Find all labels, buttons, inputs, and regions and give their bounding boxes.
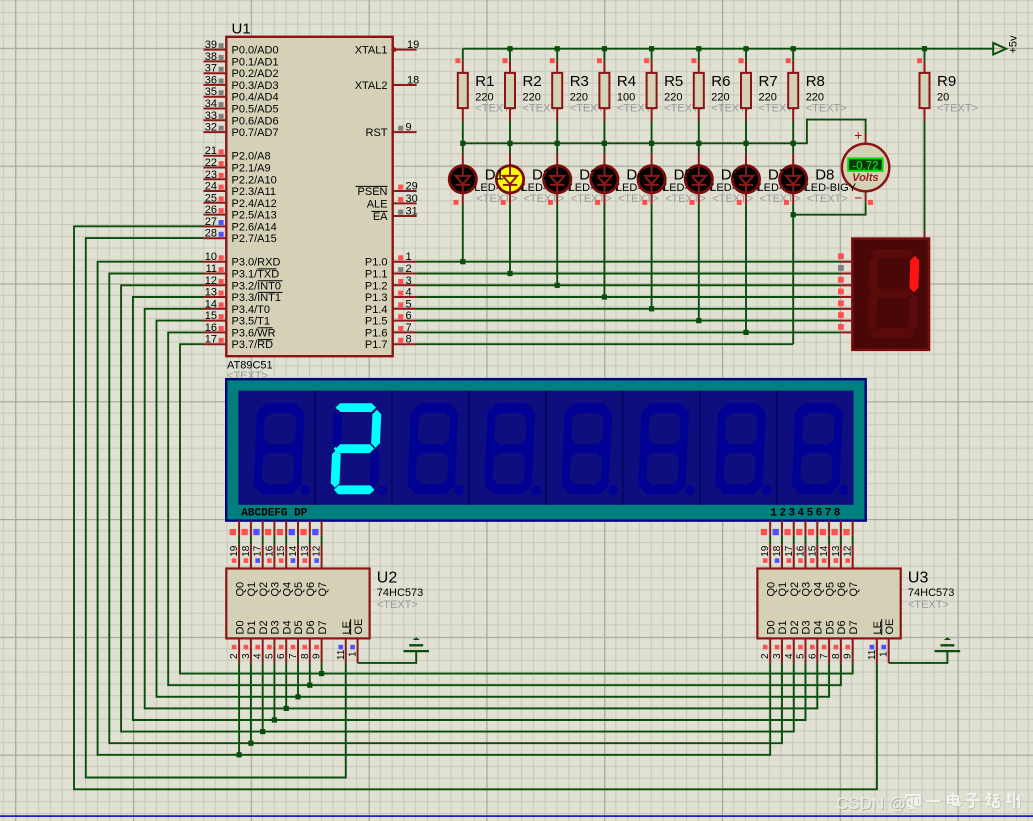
svg-text:2: 2 — [406, 263, 412, 275]
svg-text:24: 24 — [205, 181, 217, 193]
svg-text:8: 8 — [406, 334, 412, 346]
svg-text:P3.6/WR: P3.6/WR — [232, 327, 276, 339]
R1 reference label — [475, 73, 494, 90]
wire net R4/D4 column vertical segments — [603, 49, 605, 297]
U2 pin Q2 label — [258, 582, 270, 597]
resistor R4 100 — [597, 58, 658, 121]
svg-text:3: 3 — [241, 653, 252, 659]
svg-text:17: 17 — [253, 545, 264, 557]
display segment pin / latch Q0 link column x=239 — [229, 521, 240, 569]
U1 pin 27 P2.6 — [204, 216, 277, 234]
U1 pin 13 P3.3 — [204, 287, 283, 305]
8-digit blue 7-segment display module — [226, 379, 866, 520]
svg-text:<TEXT>: <TEXT> — [665, 193, 706, 205]
LED D7 name label — [768, 166, 787, 183]
svg-text:OE: OE — [884, 619, 896, 635]
display segment pin / latch Q4 link column x=286 — [276, 521, 287, 569]
svg-text:<TEXT>: <TEXT> — [476, 193, 517, 205]
svg-text:R5: R5 — [664, 73, 683, 90]
svg-text:ALE: ALE — [367, 198, 388, 210]
svg-text:Q6: Q6 — [305, 582, 317, 597]
svg-text:U3: U3 — [908, 569, 929, 586]
svg-text:9: 9 — [406, 122, 412, 134]
U3 pin Q0 label — [765, 582, 777, 597]
wire +5V rail from R1 top to power arrow — [463, 48, 993, 50]
svg-text:Q6: Q6 — [836, 582, 848, 597]
U2 pin Q7 label — [317, 582, 329, 597]
U1 pin 6 P1.5 — [365, 310, 417, 328]
svg-text:D5: D5 — [824, 620, 836, 634]
U1 pin 17 P3.7 — [204, 334, 274, 352]
svg-text:1: 1 — [406, 251, 412, 263]
svg-text:D0: D0 — [765, 620, 777, 634]
U1 value label AT89C51 — [227, 359, 273, 382]
svg-text:19: 19 — [760, 545, 771, 557]
U1 pin 28 P2.7 — [204, 228, 277, 246]
IC U3 74HC573 latch — [757, 569, 954, 664]
U3 pin D2 (pin 4) — [784, 620, 801, 663]
wire U3 OE to ground — [889, 652, 948, 663]
wire net R3/D3 column vertical segments — [556, 49, 558, 286]
wire net R2/D2 column vertical segments — [509, 49, 511, 274]
svg-text:ABCDEFG DP: ABCDEFG DP — [241, 507, 307, 519]
U2 reference label — [377, 569, 398, 586]
R2 value label 220 — [523, 91, 564, 114]
svg-text:EA: EA — [373, 211, 388, 223]
svg-text:12: 12 — [205, 275, 217, 287]
U1 pin 11 P3.1 — [204, 263, 280, 281]
svg-text:-0.72: -0.72 — [852, 160, 878, 172]
svg-text:LE: LE — [341, 621, 353, 634]
svg-text:<TEXT>: <TEXT> — [377, 599, 418, 611]
U3 pin Q6 label — [836, 582, 848, 597]
svg-text:P2.6/A14: P2.6/A14 — [232, 221, 277, 233]
svg-text:P2.2/A10: P2.2/A10 — [232, 174, 277, 186]
junction dot P1.4 row at D5 column — [649, 306, 654, 311]
display digit pin / latch Q5 link column x=829 — [819, 521, 830, 569]
svg-text:8: 8 — [831, 653, 842, 659]
U1 pin 7 P1.6 — [365, 322, 417, 340]
svg-text:D6: D6 — [305, 620, 317, 634]
wire net P1.7 row from U1 cornering up to D8 — [417, 343, 794, 345]
U3 pin Q1 label — [777, 582, 789, 597]
wire net P3.5 / D5 bus to U2 and U3 — [157, 321, 830, 697]
svg-text:<TEXT>: <TEXT> — [618, 193, 659, 205]
LED D2 body — [496, 154, 523, 205]
U3 pin Q2 label — [789, 582, 801, 597]
svg-text:6: 6 — [276, 653, 287, 659]
svg-text:<TEXT>: <TEXT> — [760, 193, 801, 205]
LED D2 name label — [532, 166, 551, 183]
U1 pin 33 P0.6 — [204, 110, 279, 128]
U3 value label 74HC573 — [908, 587, 954, 611]
svg-text:<TEXT>: <TEXT> — [807, 193, 848, 205]
LED D3 name label — [579, 166, 598, 183]
svg-text:31: 31 — [406, 206, 418, 218]
svg-text:P2.7/A15: P2.7/A15 — [232, 233, 277, 245]
wire U2 OE to ground — [358, 652, 417, 663]
display digit pin / latch Q6 link column x=841 — [831, 521, 842, 569]
wire net R5/D5 column vertical segments — [651, 49, 653, 309]
svg-text:<TEXT>: <TEXT> — [937, 102, 978, 114]
svg-text:Q3: Q3 — [801, 582, 813, 597]
svg-text:OE: OE — [353, 619, 365, 635]
svg-text:LE: LE — [872, 621, 884, 634]
svg-text:33: 33 — [205, 110, 217, 122]
svg-text:D3: D3 — [579, 166, 598, 183]
U2 pin D2 (pin 4) — [253, 620, 270, 663]
display digit pin / latch Q7 link column x=853 — [843, 521, 854, 569]
LED D4 model label LED-BIGY — [616, 182, 668, 205]
voltmeter showing -0.72 Volts — [842, 127, 889, 205]
wire net R1/D1 column vertical segments — [462, 49, 464, 262]
svg-text:D7: D7 — [848, 620, 860, 634]
svg-text:R2: R2 — [523, 73, 542, 90]
R2 reference label — [523, 73, 542, 90]
wire net P1.5 row from U1 to 7-seg display — [417, 320, 841, 322]
svg-text:D1: D1 — [246, 620, 258, 634]
junction dot P1.6 row at D7 column — [743, 330, 748, 335]
U1 pin 16 P3.6 — [204, 322, 276, 340]
U1 reference label — [232, 21, 251, 38]
U1 pin 31 EA — [372, 206, 418, 224]
wire net P3.1 / D1 bus to U2 and U3 — [109, 274, 782, 744]
U1 pin 37 P0.2 — [204, 63, 279, 81]
svg-text:P0.4/AD4: P0.4/AD4 — [232, 92, 279, 104]
svg-text:P3.0/RXD: P3.0/RXD — [232, 257, 281, 269]
svg-text:D1: D1 — [777, 620, 789, 634]
svg-text:7: 7 — [288, 653, 299, 659]
U3 pin D7 (pin 9) — [843, 620, 860, 663]
svg-text:21: 21 — [205, 145, 217, 157]
resistor R6 220 — [691, 58, 752, 121]
svg-text:R1: R1 — [475, 73, 494, 90]
svg-text:XTAL1: XTAL1 — [355, 45, 388, 57]
U2 pin Q0 label — [234, 582, 246, 597]
7-seg display pin 4 — [838, 289, 852, 297]
svg-text:CSDN @: CSDN @ — [836, 794, 906, 813]
7-seg display pin 2 — [838, 265, 852, 273]
svg-text:Q1: Q1 — [246, 582, 258, 597]
svg-text:P1.3: P1.3 — [365, 292, 388, 304]
svg-text:10: 10 — [205, 251, 217, 263]
7-segment display (red, common pin to R9) — [852, 231, 929, 350]
svg-text:P3.5/T1: P3.5/T1 — [232, 316, 271, 328]
wire net P2.7 to U2 LE — [86, 238, 346, 777]
svg-text:D4: D4 — [813, 620, 825, 634]
junction dot P1.1 row at D2 column — [507, 271, 512, 276]
U1 pin 26 P2.5 — [204, 204, 277, 222]
wire net P3.3 / D3 bus to U2 and U3 — [133, 297, 806, 720]
display digit pin / latch Q2 link column x=794 — [784, 521, 795, 569]
display segment pin / latch Q1 link column x=251 — [241, 521, 252, 569]
LED D1 body — [449, 154, 476, 205]
wire net P1.6 row from U1 to 7-seg display — [417, 331, 841, 333]
wire net P3.6 / D6 bus to U2 and U3 — [168, 332, 841, 685]
R9 reference label — [937, 73, 956, 90]
svg-text:4: 4 — [406, 287, 412, 299]
svg-text:D2: D2 — [258, 620, 270, 634]
LED D5 name label — [674, 166, 693, 183]
junction dot D1 bus at U2 pin — [248, 741, 253, 746]
svg-text:Q5: Q5 — [824, 582, 836, 597]
U3 pin Q5 label — [824, 582, 836, 597]
svg-text:4: 4 — [253, 653, 264, 659]
svg-text:7: 7 — [406, 322, 412, 334]
bottom blue line — [0, 815, 1033, 817]
svg-text:P2.1/A9: P2.1/A9 — [232, 163, 271, 175]
LED D1 model label LED-BIGY — [474, 182, 526, 205]
U3 pin Q3 label — [801, 582, 813, 597]
display segment pin / latch Q7 link column x=322 — [312, 521, 323, 569]
svg-text:6: 6 — [406, 310, 412, 322]
svg-text:P1.0: P1.0 — [365, 257, 388, 269]
LED D4 name label — [626, 166, 645, 183]
svg-text:5: 5 — [264, 653, 275, 659]
U1 pin 18 XTAL2 — [355, 75, 420, 93]
U3 pin LE (11) — [867, 621, 884, 663]
svg-text:13: 13 — [205, 287, 217, 299]
U1 pin 34 P0.5 — [204, 98, 279, 116]
svg-text:Volts: Volts — [852, 172, 879, 184]
svg-text:6: 6 — [807, 653, 818, 659]
svg-text:37: 37 — [205, 63, 217, 75]
R5 value label 220 — [664, 91, 705, 114]
svg-text:D5: D5 — [293, 620, 305, 634]
svg-text:11: 11 — [336, 649, 347, 660]
wire net P2.6 to U3 LE (left bundle outermost) — [74, 226, 877, 789]
resistor R3 220 — [550, 58, 611, 121]
svg-text:18: 18 — [241, 545, 252, 557]
LED D6 body — [685, 154, 712, 205]
U1 pin 19 XTAL1 — [355, 39, 420, 57]
svg-text:74HC573: 74HC573 — [908, 587, 954, 599]
svg-text:D2: D2 — [532, 166, 551, 183]
wire net P1.4 row from U1 to 7-seg display — [417, 308, 841, 310]
wire net P3.7 / D7 bus to U2 and U3 — [180, 344, 853, 673]
junction dot P1.3 row at D4 column — [602, 294, 607, 299]
svg-text:35: 35 — [205, 86, 217, 98]
junction dot D0 bus at U2 pin — [237, 752, 242, 757]
resistor R9 20 — [917, 58, 978, 121]
U2 pin D0 (pin 2) — [229, 620, 246, 663]
junction dot P1.5 row at D6 column — [696, 318, 701, 323]
svg-text:15: 15 — [807, 545, 818, 557]
wire common rail below resistors (LED anode rail) with jog to voltmeter + — [463, 120, 866, 144]
svg-text:P2.4/A12: P2.4/A12 — [232, 198, 277, 210]
U1 pin 23 P2.2 — [204, 169, 277, 187]
svg-text:36: 36 — [205, 74, 217, 86]
svg-text:P3.3/INT1: P3.3/INT1 — [232, 292, 282, 304]
U1 pin 24 P2.3 — [204, 181, 276, 199]
svg-text:<TEXT>: <TEXT> — [908, 599, 949, 611]
LED D1 name label — [485, 166, 504, 183]
U3 pin D3 (pin 5) — [796, 620, 813, 663]
U1 pin 39 P0.0 — [204, 39, 279, 57]
svg-text:+5v: +5v — [1008, 35, 1020, 54]
svg-text:P2.5/A13: P2.5/A13 — [232, 210, 277, 222]
U2 pin D1 (pin 3) — [241, 620, 258, 663]
svg-text:R4: R4 — [617, 73, 636, 90]
svg-text:P0.3/AD3: P0.3/AD3 — [232, 80, 279, 92]
svg-text:D4: D4 — [626, 166, 645, 183]
svg-text:13: 13 — [300, 545, 311, 557]
svg-text:R9: R9 — [937, 73, 956, 90]
wire net R7/D7 column vertical segments — [745, 49, 747, 333]
svg-text:12345678: 12345678 — [770, 507, 842, 519]
display segment pin / latch Q3 link column x=274 — [264, 521, 275, 569]
R7 reference label — [759, 73, 778, 90]
ground near U3 — [935, 637, 961, 651]
LED D3 body — [544, 154, 571, 205]
svg-text:P0.6/AD6: P0.6/AD6 — [232, 115, 279, 127]
svg-text:P2.0/A8: P2.0/A8 — [232, 151, 271, 163]
U1 pin 14 P3.4 — [204, 298, 271, 316]
svg-text:D0: D0 — [234, 620, 246, 634]
U1 pin 4 P1.3 — [365, 287, 417, 305]
R4 value label 100 — [617, 91, 658, 114]
R3 reference label — [570, 73, 589, 90]
svg-text:Q3: Q3 — [270, 582, 282, 597]
svg-text:2: 2 — [760, 653, 771, 659]
U1 pin 36 P0.3 — [204, 74, 279, 92]
svg-text:Q0: Q0 — [765, 582, 777, 597]
U1 pin 22 P2.1 — [204, 157, 271, 175]
R9 value label 20 — [937, 91, 978, 114]
svg-text:9: 9 — [843, 653, 854, 659]
svg-text:7: 7 — [819, 653, 830, 659]
svg-text:32: 32 — [205, 122, 217, 134]
R1 value label 220 — [475, 91, 516, 114]
svg-text:XTAL2: XTAL2 — [355, 80, 388, 92]
wire net P1.3 row from U1 to 7-seg display — [417, 296, 841, 298]
svg-text:29: 29 — [406, 181, 418, 193]
wire net P3.4 / D4 bus to U2 and U3 — [145, 309, 818, 709]
svg-text:Q7: Q7 — [317, 582, 329, 597]
svg-text:P3.7/RD: P3.7/RD — [232, 339, 274, 351]
7-seg display pin 5 — [838, 300, 852, 308]
R6 value label 220 — [711, 91, 752, 114]
U1 pin 29 PSEN — [356, 181, 418, 199]
svg-text:P1.7: P1.7 — [365, 339, 388, 351]
svg-text:Q0: Q0 — [234, 582, 246, 597]
U3 pin D6 (pin 8) — [831, 620, 848, 663]
svg-text:38: 38 — [205, 51, 217, 63]
U3 pin D5 (pin 7) — [819, 620, 836, 663]
LED D8 body — [780, 154, 807, 205]
svg-text:14: 14 — [288, 545, 299, 557]
U2 pin D7 (pin 9) — [312, 620, 329, 663]
svg-text:R8: R8 — [806, 73, 825, 90]
svg-text:Q4: Q4 — [281, 582, 293, 597]
U1 pin 32 P0.7 — [204, 122, 279, 140]
U2 pin OE (1) with overline — [348, 619, 365, 663]
U1 pin 2 P1.1 — [365, 263, 417, 281]
resistor R1 220 — [455, 58, 516, 121]
LED D3 model label LED-BIGY — [569, 182, 621, 205]
svg-text:12: 12 — [843, 545, 854, 557]
LED D7 model label LED-BIGY — [758, 182, 810, 205]
svg-text:9: 9 — [312, 653, 323, 659]
LED D6 model label LED-BIGY — [710, 182, 762, 205]
U3 reference label — [908, 569, 929, 586]
R6 reference label — [711, 73, 730, 90]
U3 pin D1 (pin 3) — [772, 620, 789, 663]
R8 reference label — [806, 73, 825, 90]
svg-text:P0.7/AD7: P0.7/AD7 — [232, 127, 279, 139]
svg-text:P1.6: P1.6 — [365, 327, 388, 339]
U3 pin OE (1) with overline — [879, 619, 896, 663]
U1 pin 15 P3.5 — [204, 310, 271, 328]
junction dots on +5V rail at R2-R8 and R9 columns — [507, 46, 927, 51]
junction dot D7 bus at U2 pin — [319, 671, 324, 676]
display digit pin / latch Q3 link column x=806 — [796, 521, 807, 569]
svg-text:11: 11 — [206, 263, 217, 275]
junction dot D5 bus at U2 pin — [295, 694, 300, 699]
svg-text:U2: U2 — [377, 569, 398, 586]
svg-text:D5: D5 — [674, 166, 693, 183]
wire voltmeter negative lead to D8 column — [793, 201, 865, 215]
U1 pin 35 P0.4 — [204, 86, 279, 104]
U1 pin 38 P0.1 — [204, 51, 279, 69]
svg-text:D1: D1 — [485, 166, 504, 183]
U1 pin 9 RST — [366, 122, 417, 140]
svg-text:27: 27 — [205, 216, 217, 228]
wire net R9 column: +5V rail to 7-seg common pin — [924, 49, 926, 231]
U2 pin LE (11) — [336, 621, 353, 663]
display segment pin / latch Q2 link column x=263 — [253, 521, 264, 569]
U1 pin 30 ALE — [367, 193, 418, 211]
resistor R8 220 — [786, 58, 847, 121]
svg-text:D7: D7 — [768, 166, 787, 183]
svg-text:11: 11 — [867, 649, 878, 660]
U2 pin D6 (pin 8) — [300, 620, 317, 663]
U1 pin 12 P3.2 — [204, 275, 283, 293]
svg-text:30: 30 — [406, 193, 418, 205]
7-seg display pin 6 — [838, 312, 852, 320]
LED D6 name label — [721, 166, 740, 183]
resistor R7 220 — [739, 58, 800, 121]
svg-text:Q2: Q2 — [789, 582, 801, 597]
svg-text:3: 3 — [406, 275, 412, 287]
svg-text:17: 17 — [205, 334, 217, 346]
svg-text:18: 18 — [772, 545, 783, 557]
LED D7 body — [732, 154, 759, 205]
svg-text:14: 14 — [205, 298, 217, 310]
svg-text:D6: D6 — [836, 620, 848, 634]
svg-text:16: 16 — [205, 322, 217, 334]
svg-text:<TEXT>: <TEXT> — [712, 193, 753, 205]
resistor R2 220 — [503, 58, 564, 121]
7-seg display pin 3 — [838, 277, 852, 285]
svg-text:P3.2/INT0: P3.2/INT0 — [232, 280, 282, 292]
display segment pin / latch Q5 link column x=298 — [288, 521, 299, 569]
R8 value label 220 — [806, 91, 847, 114]
IC U1 AT89C51 microcontroller — [204, 21, 420, 382]
U3 pin Q7 label — [848, 582, 860, 597]
svg-text:19: 19 — [229, 545, 240, 557]
U2 pin D4 (pin 6) — [276, 620, 293, 663]
svg-text:D6: D6 — [721, 166, 740, 183]
LED D8 name label — [815, 166, 834, 183]
U2 pin Q5 label — [293, 582, 305, 597]
wire net P3.0 / D0 bus to U2 and U3 — [98, 262, 771, 755]
svg-text:16: 16 — [264, 545, 275, 557]
LED D2 model label LED-BIGY — [522, 182, 574, 205]
svg-text:28: 28 — [205, 228, 217, 240]
U1 pin 10 P3.0 — [204, 251, 281, 269]
svg-text:34: 34 — [205, 98, 217, 110]
